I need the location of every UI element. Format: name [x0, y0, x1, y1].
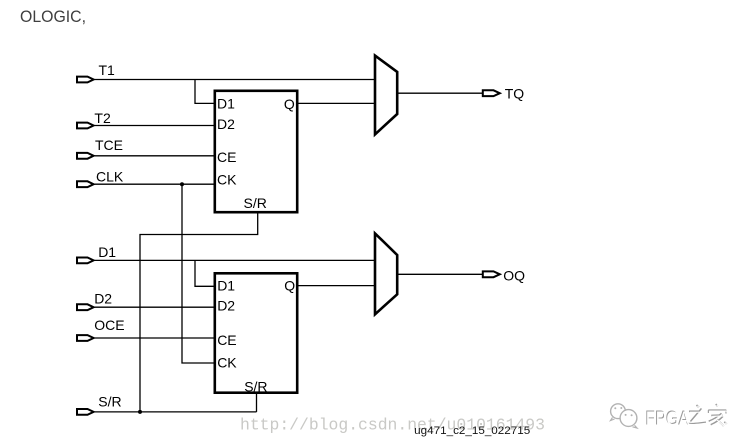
svg-text:CK: CK — [217, 171, 237, 187]
svg-text:OLOGIC,: OLOGIC, — [20, 8, 86, 26]
input pad OCE — [77, 335, 94, 341]
wire net Q1 from FF1 Q to mux M1 — [299, 102, 375, 104]
svg-text:S/R: S/R — [98, 394, 121, 410]
svg-text:OQ: OQ — [503, 267, 525, 283]
wire net OQ from mux M2 to output pad — [398, 273, 483, 275]
flip-flop FF1 (tristate register) box — [215, 91, 297, 212]
svg-text:D1: D1 — [98, 244, 116, 260]
input pad D2 — [77, 304, 94, 310]
input pad T2 — [77, 123, 94, 129]
logo wechat icon back bubble tail — [611, 418, 615, 421]
mux M1 (TQ mux) — [375, 56, 397, 135]
svg-text:CE: CE — [217, 149, 236, 165]
output pad TQ — [483, 90, 500, 96]
logo wechat icon front bubble — [620, 410, 637, 427]
svg-text:CLK: CLK — [96, 168, 124, 184]
wire net S/R from FF1 S/R pin down-left to vertical trunk — [140, 214, 258, 412]
wire net CLK branch down to FF2 CK pin — [182, 184, 214, 363]
svg-text:OCE: OCE — [94, 317, 124, 333]
wire net T1 horizontal to mux M1 — [95, 79, 375, 81]
output pad OQ — [483, 271, 500, 277]
flip-flop FF2 (output register) box — [215, 273, 297, 392]
logo wechat icon front bubble tail — [633, 425, 638, 428]
svg-text:ug471_c2_15_022715: ug471_c2_15_022715 — [414, 425, 530, 437]
svg-text:D1: D1 — [217, 277, 235, 293]
junction S/R trunk — [138, 410, 142, 414]
svg-text:D2: D2 — [217, 298, 235, 314]
svg-text:S/R: S/R — [244, 379, 267, 395]
svg-text:D2: D2 — [217, 116, 235, 132]
wire net D1 horizontal to mux M2 — [95, 259, 375, 261]
wire net T1 branch down to FF1 D1 pin — [195, 80, 214, 104]
logo wechat icon back bubble eyes — [614, 407, 616, 409]
logo text zhi (之) hand drawn — [688, 405, 707, 424]
svg-text:Q: Q — [284, 96, 295, 112]
svg-text:D1: D1 — [217, 95, 235, 111]
logo text jia (家) hand drawn — [708, 404, 727, 426]
svg-text:T1: T1 — [99, 62, 116, 78]
svg-text:FPGA: FPGA — [646, 408, 690, 430]
wire net S/R up to FF2 S/R pin — [256, 394, 258, 412]
mux M2 (OQ mux) — [375, 233, 397, 314]
svg-text:TCE: TCE — [95, 137, 123, 153]
svg-text:D2: D2 — [94, 291, 112, 307]
input pad S/R — [77, 409, 94, 415]
logo wechat icon front bubble eyes — [625, 414, 627, 416]
svg-text:TQ: TQ — [505, 85, 525, 101]
svg-text:CK: CK — [217, 354, 237, 370]
input pad T1 — [77, 77, 94, 83]
wire net CLK to FF1 CK pin — [95, 183, 215, 185]
svg-text:CE: CE — [217, 332, 236, 348]
wire net OCE to FF2 CE pin — [95, 337, 215, 339]
wire net D2 to FF2 D2 pin — [95, 306, 215, 308]
input pad D1 — [77, 258, 94, 264]
logo wechat icon back bubble — [611, 404, 626, 419]
input pad TCE — [77, 153, 94, 159]
wire net TQ from mux M1 to output pad — [398, 92, 483, 94]
wire net Q2 from FF2 Q to mux M2 — [299, 285, 375, 287]
svg-text:S/R: S/R — [244, 195, 267, 211]
wire net D1 branch down to FF2 D1 pin — [195, 260, 214, 286]
wire net S/R input horizontal — [95, 411, 257, 413]
input pad CLK — [77, 181, 94, 187]
logo text emboss white highlight copy — [646, 405, 728, 430]
wire net TCE to FF1 CE pin — [95, 155, 215, 157]
svg-text:T2: T2 — [94, 110, 111, 126]
junction CLK branch — [180, 182, 184, 186]
svg-text:Q: Q — [284, 277, 295, 293]
wire net T2 to FF1 D2 pin — [95, 125, 215, 127]
